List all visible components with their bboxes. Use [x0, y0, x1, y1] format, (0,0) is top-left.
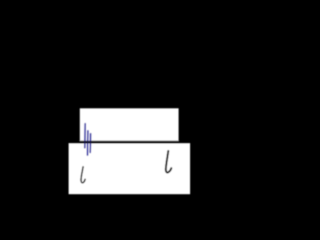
junction line overlay [69, 141, 191, 144]
lower box [69, 143, 191, 194]
tally stroke 1 [84, 124, 86, 148]
tally stroke 2 [87, 131, 89, 155]
glyph ell right [166, 151, 172, 173]
upper box [80, 108, 179, 141]
glyph ell left [81, 167, 85, 183]
junction line [69, 141, 191, 144]
tally stroke 3 [89, 134, 91, 153]
